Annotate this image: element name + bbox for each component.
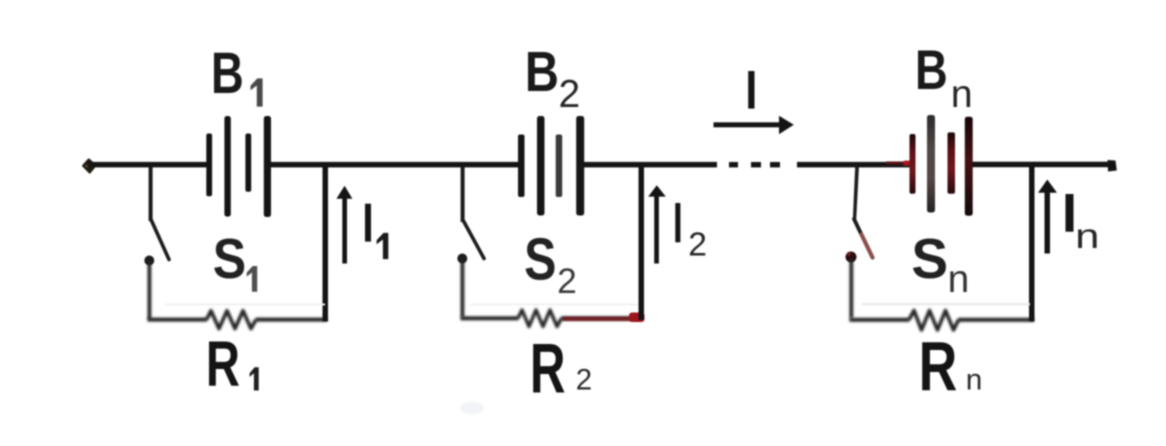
node: right terminal [1108,160,1117,172]
battery B1 [206,116,271,217]
wire: S1 contact to bottom [148,262,152,319]
node: Sn contact [846,252,857,263]
svg-text:n: n [948,258,970,301]
wire: R2 bottom right lead [561,316,642,320]
wire: main bus segment 1 (left terminal to B1) [88,162,208,168]
svg-text:n: n [966,364,983,397]
label I1 [365,204,388,259]
faint smudge artifact [460,402,484,414]
label Rn [919,328,983,406]
svg-text:R: R [919,328,958,406]
svg-text:2: 2 [557,261,577,301]
wire: Rn bottom right lead [958,318,1034,322]
wire: red tinted patch left of Bn [886,161,914,166]
svg-text:2: 2 [559,73,581,116]
wire: R2 red streak [563,303,645,322]
node: S2 contact [457,254,467,264]
svg-text:R: R [530,329,566,408]
svg-text:B: B [915,39,948,101]
resistor Rn [909,311,959,331]
wire: main bus segment 4 (dashed break to Bn) [797,162,911,168]
svg-text:n: n [1075,217,1099,256]
arrow: branch current I1 [336,186,352,264]
wire: Sn contact to bottom [849,259,853,318]
svg-text:R: R [206,328,240,400]
wire: B2 right branch [639,166,645,320]
label R2 [530,329,592,408]
switch Sn blade [854,219,873,258]
label R1 [206,328,259,400]
svg-text:n: n [951,72,973,116]
wire: Bn right branch [1029,166,1035,322]
label Bn [915,39,973,116]
label B1 [211,42,263,107]
wire: R1 bottom left lead [148,318,208,322]
wire: Bn left branch [853,166,859,220]
wire: dashed continuation dashes [729,162,780,167]
wire: B1 left branch [149,166,153,221]
battery Bn [910,115,973,216]
arrow: branch current In [1038,180,1057,254]
svg-text:B: B [211,42,244,107]
label B2 [525,41,580,116]
wire: R2 bottom left lead [461,316,519,320]
resistor R2 [518,310,562,327]
label Sn [911,226,969,301]
arrow: current I direction [714,116,794,134]
arrow: branch current I2 [648,185,666,263]
label I (total current) [748,71,754,109]
svg-text:2: 2 [688,227,707,264]
battery B2 [518,116,584,216]
wire: B2 left branch [461,166,465,222]
label S1 [213,228,257,291]
svg-text:S: S [213,228,246,290]
resistor R1 [207,311,256,329]
wire: Rn bottom left lead [849,318,909,322]
switch S1 blade [151,220,169,260]
switch S2 blade [464,221,485,259]
node: left terminal [83,159,96,172]
wire: R1 bottom right lead [256,318,328,322]
node: S1 contact [144,256,154,266]
svg-text:S: S [911,226,948,290]
wire: B1 right branch [323,166,329,322]
label I2 [675,203,707,264]
wire: main bus segment 5 (Bn to right terminal) [972,162,1109,168]
svg-text:S: S [524,227,556,293]
label S2 [524,227,577,301]
wire: main bus segment 2 (B1 to B2) [270,162,519,168]
label In [1066,194,1100,256]
svg-text:B: B [525,41,559,104]
wire: main bus segment 3 (B2 to dashed break) [584,162,717,168]
svg-text:2: 2 [576,364,592,397]
faint scan artifact lines [165,303,1030,306]
wire: S2 contact to bottom [461,260,465,317]
